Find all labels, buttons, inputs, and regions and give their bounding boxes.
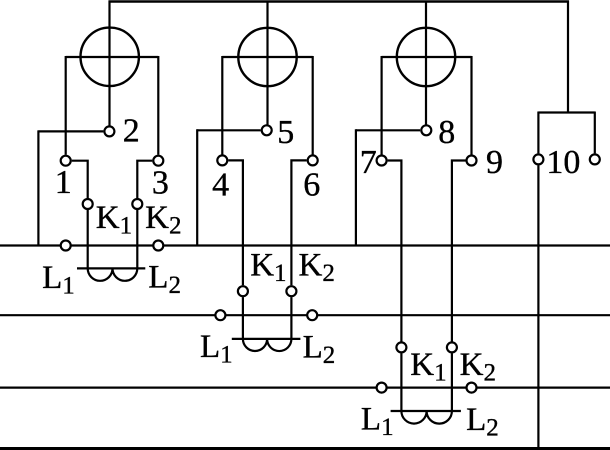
svg-text:L2: L2 [303, 329, 336, 369]
wire: terminal 6 to CT2 K2 lead [291, 160, 306, 285]
CT1 core bar [77, 267, 145, 269]
svg-text:3: 3 [152, 165, 169, 202]
terminal 1 [61, 156, 71, 166]
CT3 L2 terminal [467, 383, 477, 393]
wire: terminal 3 to CT1 K2 lead [137, 161, 152, 198]
wire: CT2 K2 lead lower segment [290, 297, 292, 339]
terminal 3 [153, 156, 163, 166]
wire: terminal 9 to CT3 K2 lead [452, 161, 466, 342]
wire: vertical from top bus to terminal-10 bar [567, 1, 569, 113]
CT2 secondary winding arcs [243, 339, 292, 351]
CT3 K1 terminal [396, 342, 406, 352]
svg-text:8: 8 [438, 114, 455, 151]
terminal 6 [308, 155, 318, 165]
terminal 5 [262, 125, 272, 135]
wire: bar down to terminal 10 left [537, 112, 539, 154]
wire: terminal 8 horizontal lead left [356, 129, 420, 131]
meter element 1 (circle) [81, 28, 139, 86]
CT1 secondary winding arcs [88, 268, 138, 280]
CT3 secondary winding arcs [401, 411, 452, 424]
wire: CT1 K1 lead lower segment [87, 210, 89, 269]
wire: terminal-10 bar [538, 111, 594, 113]
wire: horizontal through meter 3 [382, 56, 472, 58]
svg-text:K2: K2 [145, 200, 181, 240]
svg-text:K2: K2 [299, 248, 335, 288]
terminal 4 [217, 155, 227, 165]
CT1 K1 terminal [83, 199, 93, 209]
svg-text:K2: K2 [460, 347, 496, 387]
wire: group 1 drop to phase A bus [37, 130, 39, 245]
svg-text:4: 4 [212, 167, 229, 204]
wire: vertical through meter 3 down to terminal 8 [425, 1, 427, 125]
wire: horizontal through meter 1 [66, 56, 159, 58]
wire: top supply bus [109, 0, 570, 2]
wire: meter 3 right drop to terminal 9 [470, 56, 472, 155]
wire: terminal 2 horizontal lead left [38, 130, 103, 132]
phase C bus line [0, 387, 610, 389]
wire: terminal 1 to CT1 K1 lead [72, 161, 88, 198]
terminal 9 [467, 156, 477, 166]
svg-text:L1: L1 [361, 401, 394, 441]
wire: vertical through meter 1 down to terminal 2 [108, 1, 110, 126]
svg-text:10: 10 [546, 144, 580, 181]
phase A bus line [0, 244, 610, 246]
CT1 L1 terminal [61, 241, 71, 251]
svg-text:L1: L1 [200, 329, 233, 369]
CT3 core bar [391, 410, 461, 412]
CT2 K1 terminal [238, 286, 248, 296]
svg-text:2: 2 [123, 113, 140, 150]
terminal 2 [104, 126, 114, 136]
terminal 8 [421, 125, 431, 135]
terminal 10 right [590, 154, 600, 164]
CT3 K2 terminal [447, 342, 457, 352]
terminal 7 [377, 156, 387, 166]
wire: vertical through meter 2 down to terminal 5 [266, 1, 268, 125]
neutral bus line (bottom) [0, 447, 610, 450]
phase B bus line [0, 314, 610, 316]
wire: terminal 5 horizontal lead left [197, 129, 261, 131]
wire: meter 2 left drop to terminal 4 [221, 56, 223, 155]
CT1 K2 terminal [132, 199, 142, 209]
svg-text:7: 7 [360, 144, 377, 181]
CT1 L2 terminal [153, 241, 163, 251]
CT2 L1 terminal [215, 310, 225, 320]
svg-text:K1: K1 [250, 248, 286, 288]
wire: CT3 K2 lead lower segment [451, 353, 453, 411]
svg-text:L2: L2 [148, 259, 181, 299]
svg-text:L1: L1 [42, 260, 75, 300]
svg-text:K1: K1 [410, 347, 446, 387]
wire: meter 1 right drop to terminal 3 [157, 56, 159, 155]
wire: bar down to terminal 10 right [594, 112, 596, 154]
CT2 K2 terminal [286, 286, 296, 296]
wire: meter 3 left drop to terminal 7 [381, 56, 383, 155]
CT2 L2 terminal [307, 310, 317, 320]
wire: CT1 K2 lead lower segment [136, 210, 138, 269]
wire: horizontal through meter 2 [222, 56, 312, 58]
wire: meter 2 right drop to terminal 6 [312, 56, 314, 155]
terminal 10 left [533, 154, 543, 164]
wire: CT3 K1 lead lower segment [400, 353, 402, 411]
wire: terminal 4 to CT2 K1 lead [228, 160, 243, 285]
wire: meter 1 left drop to terminal 1 [65, 56, 67, 155]
wire: terminal 7 to CT3 K1 lead [388, 161, 402, 342]
svg-text:1: 1 [55, 164, 72, 201]
meter element 2 (circle) [238, 28, 296, 86]
CT2 core bar [232, 338, 301, 340]
svg-text:L2: L2 [466, 402, 499, 442]
wire: CT2 K1 lead lower segment [242, 297, 244, 339]
svg-text:K1: K1 [96, 200, 132, 240]
svg-text:5: 5 [277, 114, 294, 151]
svg-text:6: 6 [303, 167, 320, 204]
CT3 L1 terminal [377, 383, 387, 393]
meter element 3 (circle) [397, 28, 455, 86]
wire: group 3 drop to phase A bus [355, 129, 357, 245]
svg-text:9: 9 [486, 144, 503, 181]
wire: group 2 drop to phase A bus [196, 129, 198, 245]
wire: terminal 10 left down to neutral bus [537, 165, 539, 447]
